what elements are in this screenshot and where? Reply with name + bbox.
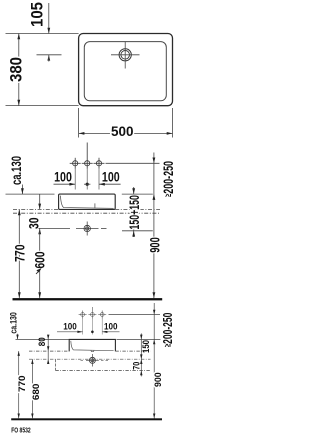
- svg-text:600: 600: [32, 251, 48, 268]
- rim extension line left (bottom): [16, 338, 70, 340]
- dim 105 extension line (faucet axis): [37, 54, 62, 56]
- svg-text:770: 770: [11, 244, 27, 262]
- extension stems (bottom circles): [82, 319, 84, 335]
- floor line bottom view (thick): [11, 418, 162, 420]
- dim >=200-250 / 900 shared line (bottom view): [153, 303, 155, 419]
- dim 80: [47, 337, 49, 352]
- svg-text:150: 150: [141, 340, 151, 353]
- svg-text:ca.130: ca.130: [8, 156, 24, 185]
- svg-text:80: 80: [37, 337, 47, 346]
- dim 600 arrow down at floor: [38, 292, 41, 298]
- counter dash-dot line right: [115, 208, 160, 210]
- basin drain tick (side view): [94, 203, 96, 208]
- cabinet front dash-dot riser: [54, 359, 56, 370]
- >=200-250 arrow up at rim: [153, 194, 156, 200]
- counter lower dash-dot (bottom): [29, 358, 151, 360]
- svg-text:150+150: 150+150: [126, 195, 142, 230]
- center dot stub: [84, 183, 90, 185]
- drain circle (elevation) outer: [84, 225, 90, 231]
- bottom edge extension line to left: [6, 105, 79, 107]
- dim >=200-250 / 900 shared line: [153, 153, 155, 299]
- dim 380 arrow down: [17, 100, 20, 106]
- counter lower dash-dot line: [13, 212, 160, 214]
- dim 380 arrow up: [17, 34, 20, 40]
- arrow down at supply line (bottom): [153, 310, 155, 315]
- arrow down at floor (900 bottom): [153, 414, 155, 419]
- supply level extension line right: [106, 162, 160, 164]
- rim extension line right: [122, 193, 153, 195]
- dim 680 (bottom): [31, 359, 33, 418]
- svg-text:380: 380: [8, 57, 26, 82]
- svg-text:70: 70: [132, 362, 142, 370]
- dim 770 arrow down: [18, 292, 21, 298]
- ca.130 arrow line: [21, 185, 23, 195]
- supply fixing circle 1: [70, 158, 81, 169]
- dim 600 line (shared with 30): [39, 228, 41, 298]
- drain circle (elevation) inner: [86, 227, 89, 230]
- basin body (side view): [59, 194, 116, 209]
- supply fixing circle 2 center (bottom): [88, 307, 96, 319]
- svg-text:100: 100: [63, 321, 77, 331]
- arrow up at basin bottom: [140, 359, 142, 364]
- basin bowl interior line: [60, 196, 113, 209]
- drain crosshair vertical (bottom): [91, 354, 93, 367]
- svg-text:900: 900: [153, 372, 163, 387]
- drain circle (bottom view) outer: [89, 357, 95, 363]
- dim 500 right extension line: [172, 108, 174, 138]
- dim 500 arrow right: [167, 132, 173, 135]
- center dot on dim line: [86, 183, 89, 186]
- basin body (bottom view): [69, 339, 115, 351]
- 150+150 arrow down at rim: [132, 188, 135, 194]
- basin outer outline (plan): [79, 34, 173, 106]
- svg-text:100: 100: [54, 168, 72, 184]
- extension stems from circles down to dim line: [74, 169, 76, 190]
- faucet crosshair horizontal: [111, 54, 140, 56]
- dim 770 arrow up: [18, 209, 21, 215]
- svg-text:770: 770: [17, 376, 27, 393]
- arrow down at rim: [140, 335, 142, 340]
- dim 770 line: [18, 209, 20, 298]
- dim 150+150 line: [133, 187, 135, 237]
- supply fixing circle 3 (bottom): [98, 311, 106, 319]
- 600 recommended-height diagonal arrow: [36, 268, 42, 274]
- dim 380 line: [18, 34, 20, 106]
- faucet hole inner circle: [121, 51, 130, 60]
- dim 100 left (bottom): [57, 331, 83, 333]
- dim 500 line: [79, 132, 173, 134]
- supply level extension right (bottom): [109, 314, 161, 316]
- drain extension line: [39, 227, 71, 229]
- dim 900 arrow down at floor: [153, 292, 156, 298]
- drain circle (bottom view) inner: [91, 359, 94, 362]
- dim 500 left extension line: [78, 108, 80, 138]
- drain crosshair horizontal (bottom): [86, 359, 99, 361]
- 150+150 bottom line: [122, 230, 153, 232]
- rim extension line left: [6, 193, 55, 195]
- top edge extension line to left: [6, 33, 79, 35]
- supply fixing circle 3: [94, 158, 105, 169]
- supply fixing circle 1 (bottom): [79, 311, 87, 319]
- svg-text:100: 100: [104, 321, 118, 331]
- svg-text:900: 900: [146, 237, 162, 253]
- rim extension line right (bottom): [117, 338, 161, 340]
- svg-text:FO 8532: FO 8532: [11, 428, 31, 435]
- ca.130 arrow line (bottom): [17, 334, 19, 340]
- countertop dash-dot left (bottom): [29, 350, 69, 352]
- dim 100 right (bottom): [102, 331, 119, 333]
- svg-text:≥200-250: ≥200-250: [160, 313, 175, 348]
- dim 105 arrow up: [47, 55, 50, 61]
- svg-text:100: 100: [102, 168, 120, 184]
- >=200-250 arrow down at supply line: [153, 158, 156, 164]
- svg-text:≥200-250: ≥200-250: [160, 161, 176, 197]
- dim 30 arrow down: [38, 204, 41, 210]
- cabinet front dash-dot lower line: [55, 369, 150, 371]
- countertop dash-dot right (bottom): [115, 350, 150, 352]
- svg-text:ca.130: ca.130: [8, 312, 18, 334]
- dim 100 right arrow: [99, 183, 105, 186]
- arrow up at rim (bottom): [153, 339, 155, 344]
- arrow up at cabinet line: [140, 370, 142, 375]
- dim 105 lower stub: [48, 55, 50, 62]
- svg-text:500: 500: [111, 123, 134, 139]
- svg-text:105: 105: [29, 2, 47, 27]
- basin bowl interior line (bottom): [71, 341, 114, 351]
- drain extension dashes right: [101, 359, 110, 361]
- supply fixing circle 2 (center): [82, 143, 93, 169]
- dim 100 right line: [99, 183, 121, 185]
- dim 500 arrow left: [79, 132, 85, 135]
- dim 105 arrow down: [47, 28, 50, 34]
- 150+150 arrow up at bottom: [132, 231, 135, 237]
- ca.130 arrow down: [21, 188, 24, 194]
- dim 30 arrow up: [38, 228, 41, 234]
- dim 100 left line: [54, 183, 76, 185]
- dim 770 (bottom): [18, 351, 20, 418]
- faucet crosshair vertical: [124, 42, 126, 69]
- dim 100 left arrow: [69, 183, 75, 186]
- arrow down at basin bottom: [140, 354, 142, 359]
- faucet hole outer circle: [119, 49, 131, 61]
- dim 150 / 70 shared line (right column): [140, 333, 142, 376]
- drain crosshair vertical: [86, 222, 88, 236]
- dim 105 line upper part: [48, 3, 50, 34]
- svg-text:30: 30: [25, 217, 41, 229]
- svg-text:680: 680: [31, 384, 41, 401]
- floor line middle view (thick): [13, 298, 163, 300]
- dim 30 upper stub: [39, 194, 41, 209]
- basin drain notch (bottom view): [91, 350, 94, 351]
- basin inner bowl outline (plan): [84, 42, 166, 101]
- counter dash-dot line left: [13, 208, 59, 210]
- center dot (bottom dim): [91, 331, 94, 334]
